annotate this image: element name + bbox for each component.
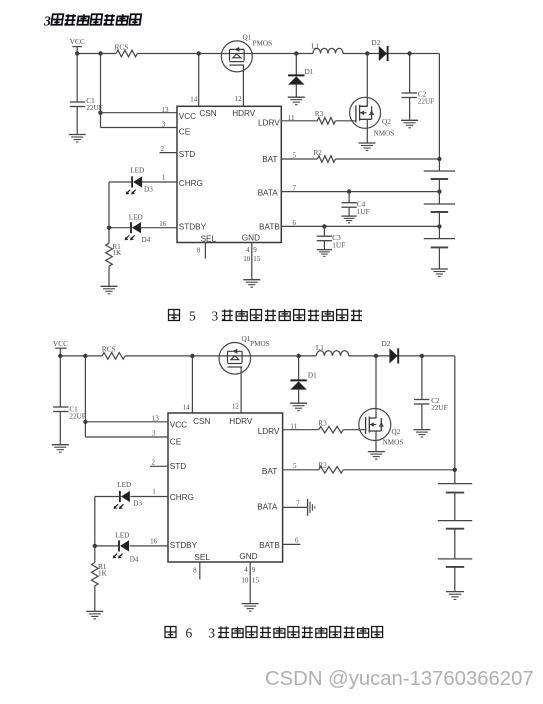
svg-text:7: 7 [293, 184, 297, 192]
wire: pin 12 HDRV to Q1 gate (fig5) [242, 65, 244, 106]
capacitor C1 22UF (fig5) [70, 97, 103, 112]
svg-text:8: 8 [197, 247, 201, 255]
svg-text:6: 6 [295, 537, 299, 545]
resistor R2 (fig5) [314, 149, 336, 162]
pin number 8 (fig5) [197, 247, 201, 255]
svg-text:BATB: BATB [259, 223, 280, 232]
wire: pin 11 LDRV (fig5) [281, 120, 317, 122]
wire: BT3- to ground (fig5) [438, 247, 440, 269]
wire: VCC to C1 (fig6) [59, 356, 61, 407]
pin number 3 (fig5) [162, 120, 166, 128]
inductor L1 (fig6) [316, 344, 349, 356]
resistor R1 1K (fig6) [92, 563, 108, 586]
wire: LED common rail (fig6) [94, 497, 96, 563]
pin number 16 (fig5) [159, 220, 167, 228]
ground: below R1 (fig6) [86, 611, 103, 619]
wire: pin 8 SEL stub (fig6) [199, 562, 201, 579]
wire: pin 1 CHRG to LED D3 (fig5) [141, 181, 177, 183]
wire: D4 cathode to left rail (fig6) [95, 545, 119, 547]
wire: R3 to Q2 gate (fig6) [343, 429, 366, 431]
svg-text:PMOS: PMOS [253, 40, 273, 48]
junction: battery top tap (fig5) [437, 157, 441, 161]
svg-text:15: 15 [252, 577, 260, 585]
svg-text:6: 6 [186, 626, 193, 641]
svg-text:14: 14 [183, 403, 191, 411]
resistor RCS (fig6) [102, 345, 125, 360]
svg-text:SEL: SEL [194, 553, 210, 562]
svg-text:1: 1 [162, 173, 166, 181]
resistor R1 1K (fig5) [106, 243, 122, 266]
svg-text:VCC: VCC [53, 339, 68, 348]
svg-text:STDBY: STDBY [179, 223, 207, 232]
capacitor C4 1UF (fig5) [341, 200, 369, 216]
svg-text:PMOS: PMOS [250, 340, 270, 348]
junction: BATB to battery (fig5) [437, 224, 441, 228]
pin number 16 (fig6) [150, 538, 158, 546]
junction: C3 tap (fig5) [322, 224, 326, 228]
wire: pin 2 STD stub (fig5) [160, 152, 178, 154]
svg-text:CE: CE [170, 437, 182, 446]
svg-text:R3: R3 [315, 110, 324, 118]
caption figure 5 [169, 309, 362, 324]
resistor R3 (fig6) [318, 420, 343, 433]
capacitor C2 22UF (fig5) [402, 91, 435, 106]
wire: C3 to ground (fig5) [323, 241, 325, 250]
svg-text:BATA: BATA [257, 503, 278, 512]
svg-text:BATA: BATA [258, 188, 279, 197]
junction: C2 node (fig6) [420, 354, 424, 358]
svg-text:L1: L1 [316, 344, 324, 352]
pin number 12 (fig6) [232, 403, 240, 411]
svg-text:13: 13 [152, 414, 160, 422]
junction: battery top (fig6) [453, 468, 457, 472]
svg-text:R3: R3 [318, 420, 327, 428]
svg-text:NMOS: NMOS [374, 129, 395, 137]
wire: R1 to ground (fig6) [94, 586, 96, 612]
wire: BT2- to BT3+ (fig5) [438, 212, 440, 239]
svg-text:11: 11 [290, 422, 297, 430]
wire: D1 to ground (fig5) [295, 85, 297, 98]
wire: BT1- to BT2+ (fig6) [454, 493, 456, 521]
svg-text:LED: LED [115, 531, 129, 539]
svg-text:SEL: SEL [201, 234, 217, 243]
battery cell BT3 (fig6) [438, 559, 472, 567]
wire: rail right corner to battery + (fig6) [454, 356, 456, 484]
capacitor C3 1UF (fig5) [317, 234, 345, 250]
svg-text:Q2: Q2 [382, 118, 391, 126]
transistor Q2 NMOS (fig5) [350, 97, 395, 137]
diode D1 (fig5) [288, 68, 314, 85]
junction: BATA to battery (fig5) [437, 189, 441, 193]
svg-text:22UF: 22UF [69, 413, 85, 421]
svg-text:22UF: 22UF [431, 404, 447, 412]
wire: VCC to C1 (fig5) [76, 54, 78, 103]
wire: pin 14 CSN to rail (fig5) [198, 54, 200, 107]
wire: node to C2 (fig6) [421, 356, 423, 400]
resistor RCS (fig5) [114, 42, 137, 57]
svg-text:16: 16 [150, 538, 158, 546]
pin number 6 (fig5) [293, 219, 297, 227]
pin number 2 (fig5) [161, 145, 165, 153]
svg-text:5: 5 [189, 309, 196, 324]
svg-text:16: 16 [159, 220, 167, 228]
ground: Q2 source (fig5) [359, 143, 376, 151]
svg-text:5: 5 [293, 152, 297, 160]
svg-text:D3: D3 [144, 185, 153, 193]
svg-text:L1: L1 [311, 42, 319, 50]
svg-text:RCS: RCS [102, 345, 116, 354]
battery cell BT3 (fig5) [424, 239, 455, 248]
ground: Q2 source (fig6) [368, 452, 385, 460]
pin number 13 (fig6) [152, 414, 160, 422]
svg-text:STD: STD [170, 462, 186, 471]
transistor Q1 PMOS (fig6) [219, 335, 270, 374]
svg-text:CHRG: CHRG [179, 179, 203, 188]
svg-text:RCS: RCS [114, 42, 128, 51]
wire: pin 8 SEL stub (fig5) [204, 243, 206, 259]
wire: C2 to ground (fig5) [409, 98, 411, 121]
ground: battery (fig5) [431, 269, 448, 277]
svg-text:1UF: 1UF [357, 208, 370, 216]
pin number 3 (fig6) [152, 430, 156, 438]
svg-text:4: 4 [244, 566, 248, 574]
svg-text:2: 2 [161, 145, 165, 153]
diode D2 (fig6) [382, 340, 399, 363]
wire: pin 16 STDBY to LED D4 (fig6) [130, 545, 169, 547]
pin number 12 (fig5) [235, 95, 243, 103]
junction: C4 tap (fig5) [347, 189, 351, 193]
svg-text:D2: D2 [372, 39, 381, 47]
VCC supply symbol (fig5) [70, 37, 85, 54]
wire: Q2 drain up (fig5) [366, 54, 368, 107]
battery cell BT1 (fig6) [438, 484, 472, 493]
svg-text:GND: GND [239, 552, 257, 561]
svg-text:7: 7 [296, 499, 300, 507]
svg-text:LED: LED [130, 166, 144, 174]
junction: pin13 branch (fig5) [98, 111, 102, 115]
watermark CSDN [265, 668, 534, 690]
pin number 11 (fig5) [288, 114, 295, 122]
svg-text:Q2: Q2 [392, 428, 401, 436]
svg-text:BAT: BAT [262, 155, 277, 164]
wire: GND pins to ground (fig5) [251, 243, 253, 280]
IC U1 (charger controller, fig6) [168, 413, 283, 562]
svg-text:1K: 1K [112, 249, 122, 257]
wire: C4 to ground (fig5) [348, 207, 350, 216]
svg-text:R2: R2 [314, 149, 323, 157]
ground: below C1 (fig5) [69, 135, 86, 143]
IC U1 (charger controller, fig5) [177, 106, 281, 243]
LED D4 (fig6) [113, 531, 139, 563]
wire: Q2 source to ground (fig6) [375, 431, 377, 451]
ground: below C3 (fig5) [317, 250, 332, 257]
svg-text:3: 3 [212, 309, 219, 324]
svg-text:CSDN @yucan-13760366207: CSDN @yucan-13760366207 [265, 668, 534, 690]
battery cell BT2 (fig5) [424, 204, 455, 212]
LED D4 (fig5) [125, 213, 151, 244]
wire: pin 14 CSN to rail (fig6) [191, 356, 193, 413]
wire: C1 to ground (fig5) [76, 107, 78, 135]
wire: BT3- to ground (fig6) [454, 567, 456, 592]
LED D3 (fig5) [126, 166, 153, 194]
svg-text:3: 3 [43, 13, 51, 28]
svg-text:VCC: VCC [170, 421, 187, 430]
svg-text:10: 10 [241, 577, 249, 585]
svg-text:D4: D4 [130, 556, 139, 564]
pin numbers 10 15 (fig5) [243, 255, 261, 263]
wire: rail down to VCC/CE pins (fig5) [100, 54, 102, 128]
svg-text:4: 4 [246, 246, 250, 254]
svg-text:BATB: BATB [259, 541, 280, 550]
battery cell BT1 (fig5) [424, 171, 455, 179]
pin number 14 (fig6) [183, 403, 191, 411]
pin number 11 (fig6) [290, 422, 297, 430]
wire: D1 to ground (fig6) [298, 390, 300, 404]
pin numbers 4 9 (fig5) [246, 246, 257, 254]
wire: R2 to battery + (fig6) [343, 469, 455, 471]
wire: BT2- to BT3+ (fig6) [454, 529, 456, 559]
capacitor C1 22UF (fig6) [53, 405, 86, 420]
wire: Q2 drain up (fig6) [375, 356, 377, 419]
svg-text:5: 5 [293, 462, 297, 470]
junction: CSN sense node (fig6) [83, 354, 87, 358]
svg-text:12: 12 [235, 95, 243, 103]
ground: below C2 (fig6) [413, 430, 430, 438]
svg-text:LDRV: LDRV [258, 118, 280, 127]
wire: C1 to ground (fig6) [59, 412, 61, 445]
junction: C2 node (fig5) [407, 51, 411, 55]
wire: Q2 source to ground (fig5) [366, 119, 368, 143]
wire: D3 cathode to left rail (fig6) [95, 496, 120, 498]
svg-text:D2: D2 [382, 340, 391, 348]
wire: pin 13 VCC (fig6) [85, 421, 168, 423]
junction: D1 node SW (fig6) [296, 354, 300, 358]
wire: GND pins to ground (fig6) [249, 562, 251, 604]
pin numbers 4 9 (fig6) [244, 566, 256, 574]
svg-text:15: 15 [253, 255, 261, 263]
wire: pin 1 CHRG to LED D3 (fig6) [131, 496, 169, 498]
wire: pin 6 BATB (fig5) [281, 225, 439, 227]
diode D1 (fig6) [290, 371, 317, 389]
wire: pin 5 BAT (fig6) [283, 469, 319, 471]
svg-text:STD: STD [179, 150, 195, 159]
svg-text:Q1: Q1 [243, 34, 252, 42]
svg-text:CHRG: CHRG [170, 493, 194, 502]
svg-text:CE: CE [179, 128, 191, 137]
ground: below D1 (fig6) [290, 403, 307, 411]
wire: pin 7 BATA (fig5) [281, 191, 439, 193]
pin number 5 (fig6) [293, 462, 297, 470]
wire: pin 3 CE (fig6) [85, 436, 168, 438]
svg-text:STDBY: STDBY [170, 541, 198, 550]
ground: IC GND (fig6) [242, 604, 259, 612]
svg-text:1K: 1K [98, 570, 108, 578]
junction: LED rail (fig6) [93, 544, 97, 548]
svg-text:VCC: VCC [179, 112, 196, 121]
wire: C2 to ground (fig6) [421, 404, 423, 430]
diode D2 (fig5) [372, 39, 388, 61]
ground: IC GND (fig5) [243, 280, 260, 288]
svg-text:9: 9 [253, 246, 257, 254]
wire: VCC top rail (fig6) [60, 355, 455, 357]
wire: pin 5 BAT (fig5) [281, 158, 317, 160]
pin numbers 10 15 (fig6) [241, 577, 259, 585]
wire: R3 to Q2 gate (fig5) [335, 120, 356, 122]
svg-text:CSN: CSN [199, 109, 216, 118]
svg-text:22UF: 22UF [418, 98, 434, 106]
junction: LED rail (fig5) [107, 226, 111, 230]
svg-text:D1: D1 [308, 371, 317, 379]
junction: pin13 branch (fig6) [83, 420, 87, 424]
resistor R2 (fig6) [318, 461, 343, 473]
wire: pin 13 VCC (fig5) [101, 112, 178, 114]
battery cell BT2 (fig6) [438, 521, 472, 529]
pin number 2 (fig6) [152, 458, 156, 466]
svg-text:3: 3 [162, 120, 166, 128]
ground: below C2 (fig5) [401, 120, 418, 128]
ground: below C1 (fig6) [52, 445, 69, 453]
wire: pin 16 STDBY to LED D4 (fig5) [140, 227, 177, 229]
junction: D1 node SW (fig5) [294, 51, 298, 55]
pin number 8 (fig6) [193, 567, 197, 575]
ground: below R1 (fig5) [101, 286, 118, 294]
svg-text:6: 6 [293, 219, 297, 227]
pin number 1 (fig5) [162, 173, 166, 181]
ground: below D1 (fig5) [288, 97, 305, 105]
wire: tap to C4 (fig5) [348, 192, 350, 203]
svg-text:9: 9 [252, 566, 256, 574]
inductor L1 (fig5) [311, 42, 343, 53]
wire: BT1- to BT2+ (fig5) [438, 179, 440, 204]
caption figure 6 [165, 626, 383, 641]
pin number 1 (fig6) [152, 488, 156, 496]
wire: SW node to D1 (fig6) [298, 356, 300, 380]
wire: R1 to ground (fig5) [108, 266, 110, 286]
pin number 7 (fig6) [296, 499, 300, 507]
svg-text:GND: GND [242, 233, 260, 242]
junction: Q2 drain node (fig5) [365, 51, 369, 55]
ground: battery (fig6) [446, 592, 464, 600]
junction: Q2 drain node (fig6) [374, 354, 378, 358]
svg-text:HDRV: HDRV [232, 109, 256, 118]
pin number 5 (fig5) [293, 152, 297, 160]
svg-text:NMOS: NMOS [383, 439, 404, 447]
svg-text:BAT: BAT [262, 467, 277, 476]
wire: LED common rail (fig5) [108, 182, 110, 243]
pin number 6 (fig6) [295, 537, 299, 545]
pin number 7 (fig5) [293, 184, 297, 192]
capacitor C2 22UF (fig6) [414, 397, 448, 412]
svg-text:D4: D4 [142, 236, 151, 244]
svg-text:HDRV: HDRV [229, 417, 253, 426]
svg-text:1UF: 1UF [332, 241, 345, 249]
junction: rail/CSN tap (fig6) [190, 354, 194, 358]
junction: VCC node (fig6) [58, 354, 62, 358]
svg-text:CSN: CSN [193, 417, 210, 426]
VCC supply symbol (fig6) [53, 339, 68, 356]
svg-text:LED: LED [117, 481, 131, 489]
pin number 14 (fig5) [190, 96, 198, 104]
wire: D4 cathode to left rail (fig5) [109, 227, 131, 229]
svg-text:14: 14 [190, 96, 198, 104]
wire: node to C2 (fig5) [409, 54, 411, 94]
svg-text:8: 8 [193, 567, 197, 575]
transistor Q1 PMOS (fig5) [221, 34, 272, 72]
svg-text:R2: R2 [318, 461, 327, 469]
wire: pin 3 CE (fig5) [101, 127, 178, 129]
wire: D3 cathode to left rail (fig5) [109, 181, 132, 183]
svg-text:1: 1 [152, 488, 156, 496]
junction: CSN sense node (fig5) [98, 51, 102, 55]
wire: pin 6 BATB stub (fig6) [283, 543, 301, 545]
wire: R2 to battery + (fig5) [335, 158, 439, 160]
wire: SW node to D1 (fig5) [295, 54, 297, 76]
svg-text:VCC: VCC [70, 37, 85, 46]
wire: VCC top rail (fig5) [77, 53, 439, 55]
wire: rail down to VCC/CE pins (fig6) [84, 356, 86, 437]
svg-text:LED: LED [129, 213, 143, 221]
ground: below C4 (fig5) [341, 216, 356, 223]
pin number 13 (fig5) [162, 106, 170, 114]
svg-text:D1: D1 [305, 68, 314, 76]
resistor R3 (fig5) [315, 110, 336, 124]
ground: BATA sideways (fig6) [308, 499, 315, 516]
wire: rail right corner to battery + (fig5) [438, 54, 440, 172]
svg-text:10: 10 [243, 255, 251, 263]
svg-text:13: 13 [162, 106, 170, 114]
svg-text:3: 3 [208, 626, 215, 641]
junction: rail/CSN tap (fig5) [197, 51, 201, 55]
wire: tap to C3 (fig5) [323, 226, 325, 236]
wire: pin 11 LDRV (fig6) [283, 429, 319, 431]
svg-text:LDRV: LDRV [258, 427, 280, 436]
wire: pin 12 HDRV to Q1 gate (fig6) [240, 367, 242, 413]
wire: pin 2 STD stub (fig6) [150, 465, 168, 467]
svg-text:D3: D3 [133, 500, 142, 508]
svg-text:2: 2 [152, 458, 156, 466]
svg-text:11: 11 [288, 114, 295, 122]
document title: 3-cell typical application (bold italic) [43, 13, 141, 28]
junction: VCC node (fig5) [75, 51, 79, 55]
LED D3 (fig6) [114, 481, 143, 509]
wire: pin 7 BATA (fig6) [283, 506, 308, 508]
svg-text:3: 3 [152, 430, 156, 438]
svg-text:12: 12 [232, 403, 240, 411]
transistor Q2 NMOS (fig6) [359, 409, 404, 447]
